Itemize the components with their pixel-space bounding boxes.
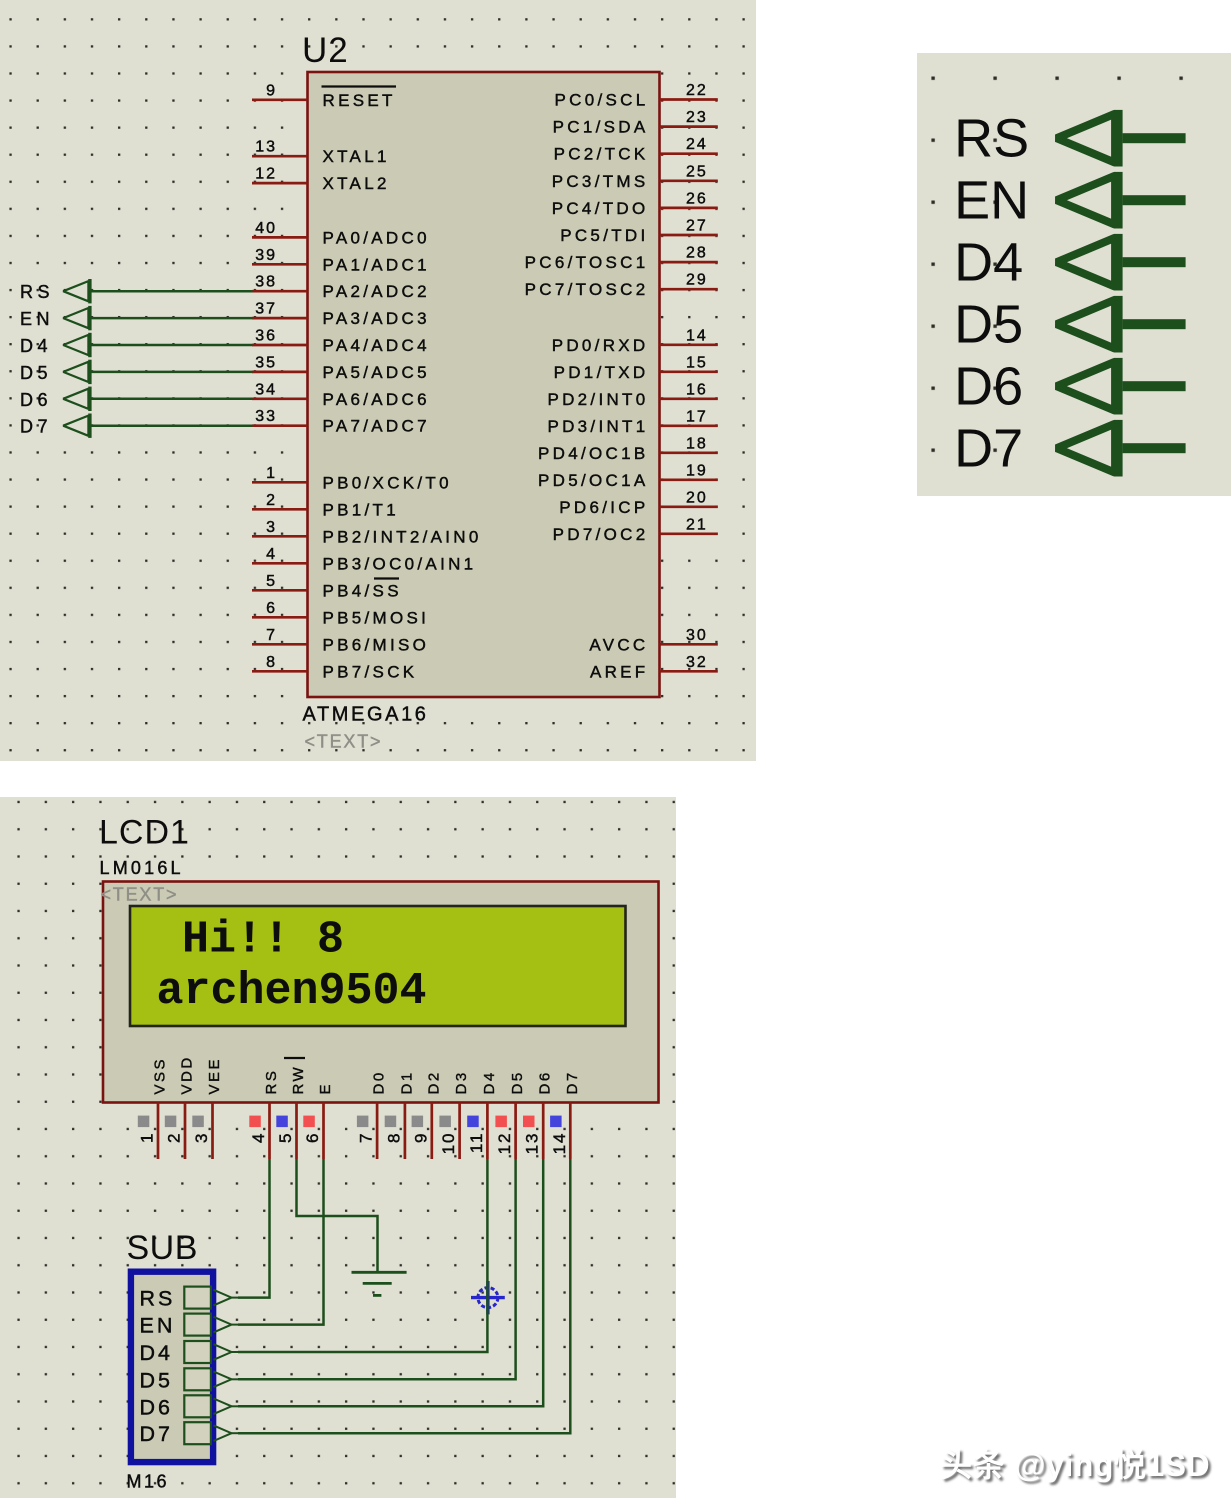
svg-text:19: 19 — [686, 462, 708, 479]
svg-text:15: 15 — [686, 354, 708, 371]
U2 pin 3 PB2/INT2/AIN0 — [252, 519, 482, 547]
U2 pin 19 PD5/OC1A — [538, 462, 718, 490]
LCD1 pin 12 D5 — [495, 1070, 526, 1159]
svg-text:PB6/MISO: PB6/MISO — [323, 635, 430, 654]
wire D5 to U2 — [91, 371, 253, 374]
LCD1 pin 4 RS — [249, 1069, 280, 1159]
U2 pin 13 XTAL1 — [252, 139, 390, 167]
svg-text:RS: RS — [954, 108, 1029, 168]
LCD1 pin 11 D4 — [467, 1070, 498, 1159]
svg-text:M16: M16 — [127, 1472, 170, 1492]
svg-text:EN: EN — [140, 1314, 176, 1338]
wire LCD pin11 D4 to SUB D4 — [238, 1159, 487, 1352]
SUB port EN — [140, 1314, 239, 1338]
svg-text:D4: D4 — [954, 232, 1023, 292]
svg-text:22: 22 — [686, 82, 708, 99]
svg-text:D5: D5 — [140, 1368, 173, 1392]
svg-text:PB1/T1: PB1/T1 — [323, 500, 400, 519]
U2 pin 9 RESET — [252, 82, 396, 110]
svg-text:39: 39 — [255, 247, 277, 264]
svg-text:20: 20 — [686, 489, 708, 506]
svg-text:27: 27 — [686, 218, 708, 235]
LCD1 pin 7 D0 — [357, 1070, 388, 1159]
svg-text:34: 34 — [255, 381, 277, 398]
svg-text:PA3/ADC3: PA3/ADC3 — [323, 309, 430, 328]
LCD1 pin 5 RW — [276, 1065, 307, 1159]
U2 pin 12 XTAL2 — [252, 166, 390, 194]
origin marker (blue crosshair) — [471, 1281, 505, 1314]
svg-text:PD4/OC1B: PD4/OC1B — [538, 444, 649, 463]
svg-text:14: 14 — [550, 1132, 569, 1155]
schematic sheet 3 (LCD + subcircuit) — [0, 797, 676, 1498]
LCD1 pin 9 D2 — [411, 1070, 442, 1159]
U2 pin 8 PB7/SCK — [252, 654, 417, 682]
U2 pin 24 PC2/TCK — [554, 136, 718, 164]
input terminal D6 (zoomed) — [1057, 358, 1123, 415]
U2 pin 2 PB1/T1 — [252, 492, 399, 520]
svg-text:PC2/TCK: PC2/TCK — [554, 145, 649, 164]
IC U2 ATMEGA16 body — [308, 72, 660, 697]
U2 pin 15 PD1/TXD — [554, 354, 718, 382]
svg-text:AREF: AREF — [590, 662, 649, 681]
ground — [352, 1272, 407, 1295]
svg-text:33: 33 — [255, 408, 277, 425]
wire D4 to U2 — [91, 344, 253, 347]
U2 pin 35 PA5/ADC5 — [252, 354, 430, 382]
svg-text:PD6/ICP: PD6/ICP — [559, 498, 648, 517]
svg-text:8: 8 — [266, 654, 277, 671]
svg-text:16: 16 — [686, 381, 708, 398]
svg-text:3: 3 — [266, 519, 277, 536]
svg-text:PB7/SCK: PB7/SCK — [323, 662, 418, 681]
SUB port D4 — [140, 1341, 239, 1365]
svg-text:PD1/TXD: PD1/TXD — [554, 363, 649, 382]
svg-text:25: 25 — [686, 163, 708, 180]
RW overline — [284, 1057, 305, 1059]
svg-text:RS: RS — [20, 282, 54, 302]
wire LCD pin12 D5 to SUB D5 — [238, 1159, 516, 1379]
U2 pin 20 PD6/ICP — [559, 489, 718, 517]
svg-text:PB4/SS: PB4/SS — [323, 581, 402, 600]
input terminal D7 — [63, 414, 91, 438]
svg-text:XTAL1: XTAL1 — [323, 147, 390, 166]
svg-text:PC4/TDO: PC4/TDO — [552, 199, 649, 218]
svg-text:D6: D6 — [954, 356, 1023, 416]
svg-text:38: 38 — [255, 274, 277, 291]
svg-text:VEE: VEE — [206, 1057, 223, 1095]
svg-text:PA1/ADC1: PA1/ADC1 — [323, 255, 430, 274]
U2 pin 25 PC3/TMS — [552, 163, 718, 191]
svg-text:Hi!! 8: Hi!! 8 — [182, 915, 344, 966]
U2 pin 17 PD3/INT1 — [547, 408, 717, 436]
svg-text:10: 10 — [439, 1132, 458, 1155]
svg-text:13: 13 — [523, 1132, 542, 1155]
svg-text:PB3/OC0/AIN1: PB3/OC0/AIN1 — [323, 554, 477, 573]
wire stub D4 (zoomed) — [1123, 257, 1186, 267]
SUB port RS — [140, 1287, 239, 1311]
input terminal RS (zoomed) — [1057, 110, 1123, 167]
svg-text:5: 5 — [276, 1132, 295, 1143]
U2 pin 37 PA3/ADC3 — [252, 301, 430, 329]
svg-text:LCD1: LCD1 — [99, 814, 190, 852]
wire LCD pin5 RW to ground — [297, 1159, 378, 1272]
svg-text:SUB: SUB — [127, 1229, 198, 1267]
svg-text:29: 29 — [686, 272, 708, 289]
svg-text:5: 5 — [266, 573, 277, 590]
svg-text:3: 3 — [192, 1132, 211, 1143]
U2 pin 7 PB6/MISO — [252, 627, 429, 655]
LCD1 pin 1 VSS — [138, 1057, 169, 1159]
svg-text:35: 35 — [255, 354, 277, 371]
svg-text:8: 8 — [384, 1132, 403, 1143]
svg-text:7: 7 — [266, 627, 277, 644]
svg-text:D4: D4 — [140, 1341, 173, 1365]
svg-text:6: 6 — [303, 1132, 322, 1143]
svg-text:D7: D7 — [20, 417, 52, 437]
svg-text:PD7/OC2: PD7/OC2 — [553, 525, 649, 544]
svg-text:PD2/INT0: PD2/INT0 — [547, 390, 648, 409]
wire LCD pin6 E to SUB EN — [238, 1159, 324, 1325]
svg-text:9: 9 — [266, 82, 277, 99]
svg-text:1: 1 — [138, 1132, 157, 1143]
wire stub D7 (zoomed) — [1123, 443, 1186, 453]
svg-text:EN: EN — [954, 170, 1029, 230]
SUB port D7 — [140, 1422, 239, 1446]
svg-text:D5: D5 — [954, 294, 1023, 354]
wire stub EN (zoomed) — [1123, 195, 1186, 205]
U2 pin 26 PC4/TDO — [552, 190, 718, 218]
svg-text:D6: D6 — [537, 1070, 554, 1094]
wire D7 to U2 — [91, 424, 253, 427]
schematic sheet 1 (ATMEGA16) — [0, 0, 756, 761]
svg-text:PC0/SCL: PC0/SCL — [555, 91, 649, 110]
SUB port D6 — [140, 1395, 239, 1419]
svg-text:RS: RS — [263, 1069, 280, 1095]
U2 pin 22 PC0/SCL — [555, 82, 718, 110]
input terminal EN — [63, 306, 91, 330]
U2 pin 1 PB0/XCK/T0 — [252, 465, 452, 493]
U2 pin 30 AVCC — [589, 627, 717, 655]
svg-text:D6: D6 — [140, 1395, 173, 1419]
svg-text:14: 14 — [686, 327, 708, 344]
LCD1 pin 13 D6 — [523, 1070, 554, 1159]
U2 pin 5 PB4/SS — [252, 573, 402, 601]
svg-text:28: 28 — [686, 245, 708, 262]
svg-text:RS: RS — [140, 1287, 176, 1311]
U2 pin 27 PC5/TDI — [560, 218, 718, 246]
svg-text:PB2/INT2/AIN0: PB2/INT2/AIN0 — [323, 527, 482, 546]
U2 pin 14 PD0/RXD — [552, 327, 718, 355]
svg-text:D0: D0 — [371, 1070, 388, 1094]
SUB port D5 — [140, 1368, 239, 1392]
LCD1 pin 10 D3 — [439, 1070, 470, 1159]
U2 pin 28 PC6/TOSC1 — [525, 245, 718, 273]
U2 pin 34 PA6/ADC6 — [252, 381, 430, 409]
input terminal D7 (zoomed) — [1057, 420, 1123, 477]
wire stub D6 (zoomed) — [1123, 381, 1186, 391]
svg-text:PA7/ADC7: PA7/ADC7 — [323, 417, 430, 436]
svg-text:36: 36 — [255, 328, 277, 345]
U2 pin 18 PD4/OC1B — [538, 435, 718, 463]
svg-text:PB0/XCK/T0: PB0/XCK/T0 — [323, 473, 452, 492]
input terminal EN (zoomed) — [1057, 172, 1123, 229]
U2 pin 33 PA7/ADC7 — [252, 408, 430, 436]
input terminal D4 (zoomed) — [1057, 234, 1123, 291]
svg-text:E: E — [317, 1082, 334, 1095]
svg-text:26: 26 — [686, 190, 708, 207]
U2 pin 40 PA0/ADC0 — [252, 220, 430, 248]
svg-text:PC3/TMS: PC3/TMS — [552, 172, 649, 191]
svg-text:D7: D7 — [564, 1070, 581, 1094]
svg-text:23: 23 — [686, 109, 708, 126]
U2 pin 32 AREF — [590, 654, 718, 682]
input terminal D6 — [63, 387, 91, 411]
LCD1 LM016L body — [103, 882, 659, 1103]
svg-text:VSS: VSS — [152, 1057, 169, 1095]
input terminal D5 — [63, 360, 91, 384]
svg-text:PA2/ADC2: PA2/ADC2 — [323, 282, 430, 301]
U2 pin 21 PD7/OC2 — [553, 516, 718, 544]
svg-text:D5: D5 — [20, 363, 52, 383]
U2 pin 23 PC1/SDA — [553, 109, 718, 137]
svg-text:4: 4 — [249, 1132, 268, 1143]
svg-text:RESET: RESET — [323, 91, 396, 110]
U2 pin 6 PB5/MOSI — [252, 600, 429, 628]
svg-text:D5: D5 — [509, 1070, 526, 1094]
svg-text:PB5/MOSI: PB5/MOSI — [323, 608, 430, 627]
svg-text:LM016L: LM016L — [100, 858, 184, 878]
svg-text:18: 18 — [686, 435, 708, 452]
input terminal RS — [63, 279, 91, 303]
svg-text:PA0/ADC0: PA0/ADC0 — [323, 228, 430, 247]
svg-text:4: 4 — [266, 546, 277, 563]
LCD1 pin 8 D1 — [384, 1070, 415, 1159]
svg-text:21: 21 — [686, 516, 708, 533]
U2 pin 29 PC7/TOSC2 — [525, 272, 718, 300]
svg-text:PC1/SDA: PC1/SDA — [553, 118, 649, 137]
subcircuit SUB body — [131, 1272, 213, 1462]
svg-text:7: 7 — [357, 1132, 376, 1143]
wire RS to U2 — [91, 290, 253, 293]
svg-text:PA6/ADC6: PA6/ADC6 — [323, 390, 430, 409]
RESET overline — [322, 85, 397, 87]
svg-text:17: 17 — [686, 408, 708, 425]
svg-text:D4: D4 — [481, 1070, 498, 1094]
svg-text:D2: D2 — [425, 1070, 442, 1094]
svg-text:<TEXT>: <TEXT> — [305, 732, 383, 752]
input terminal D5 (zoomed) — [1057, 296, 1123, 353]
wire stub D5 (zoomed) — [1123, 319, 1186, 329]
U2 pin 38 PA2/ADC2 — [252, 274, 430, 302]
LCD1 pin 3 VEE — [192, 1057, 223, 1159]
SS overline (pin PB4) — [374, 577, 399, 579]
svg-text:D7: D7 — [954, 418, 1023, 478]
watermark — [940, 1440, 1210, 1486]
svg-text:PD3/INT1: PD3/INT1 — [547, 417, 648, 436]
svg-text:37: 37 — [255, 301, 277, 318]
svg-text:archen9504: archen9504 — [157, 966, 427, 1017]
svg-text:2: 2 — [165, 1132, 184, 1143]
svg-text:PD0/RXD: PD0/RXD — [552, 336, 649, 355]
LCD screen — [130, 906, 626, 1026]
LCD1 pin 14 D7 — [550, 1070, 581, 1159]
svg-text:13: 13 — [255, 139, 277, 156]
U2 pin 36 PA4/ADC4 — [252, 328, 430, 356]
svg-text:11: 11 — [467, 1132, 486, 1154]
wire stub RS (zoomed) — [1123, 133, 1186, 143]
wire LCD pin4 RS to SUB RS — [238, 1159, 270, 1298]
svg-text:12: 12 — [255, 166, 277, 183]
svg-text:D4: D4 — [20, 336, 52, 356]
input terminal D4 — [63, 333, 91, 357]
U2 pin 39 PA1/ADC1 — [252, 247, 430, 275]
svg-text:XTAL2: XTAL2 — [323, 174, 390, 193]
LCD1 pin 6 E — [303, 1082, 334, 1159]
U2 pin 16 PD2/INT0 — [547, 381, 717, 409]
svg-text:D3: D3 — [453, 1070, 470, 1094]
wire LCD pin14 D7 to SUB D7 — [238, 1159, 570, 1433]
svg-text:<TEXT>: <TEXT> — [101, 885, 179, 905]
svg-text:2: 2 — [266, 492, 277, 509]
svg-text:U2: U2 — [302, 31, 349, 70]
svg-text:D7: D7 — [140, 1422, 173, 1446]
svg-text:9: 9 — [411, 1132, 430, 1143]
svg-text:PC6/TOSC1: PC6/TOSC1 — [525, 253, 649, 272]
svg-text:12: 12 — [495, 1132, 514, 1155]
svg-text:32: 32 — [686, 654, 708, 671]
U2 pin 4 PB3/OC0/AIN1 — [252, 546, 476, 574]
wire EN to U2 — [91, 317, 253, 320]
svg-text:AVCC: AVCC — [589, 635, 648, 654]
wire LCD pin13 D6 to SUB D6 — [238, 1159, 543, 1406]
svg-text:30: 30 — [686, 627, 708, 644]
svg-text:PC5/TDI: PC5/TDI — [560, 226, 648, 245]
svg-text:PA4/ADC4: PA4/ADC4 — [323, 336, 430, 355]
svg-text:D1: D1 — [398, 1070, 415, 1094]
svg-text:PA5/ADC5: PA5/ADC5 — [323, 363, 430, 382]
svg-text:PC7/TOSC2: PC7/TOSC2 — [525, 280, 649, 299]
svg-text:PD5/OC1A: PD5/OC1A — [538, 471, 649, 490]
LCD1 pin 2 VDD — [165, 1055, 196, 1159]
wire D6 to U2 — [91, 398, 253, 401]
svg-text:24: 24 — [686, 136, 708, 153]
schematic sheet 2 (zoomed terminals) — [917, 53, 1231, 497]
svg-text:1: 1 — [266, 465, 277, 482]
svg-text:RW: RW — [290, 1065, 307, 1095]
svg-text:EN: EN — [20, 309, 54, 329]
svg-text:D6: D6 — [20, 390, 52, 410]
svg-text:40: 40 — [255, 220, 277, 237]
svg-text:6: 6 — [266, 600, 277, 617]
svg-text:ATMEGA16: ATMEGA16 — [303, 704, 429, 726]
svg-text:VDD: VDD — [179, 1055, 196, 1094]
